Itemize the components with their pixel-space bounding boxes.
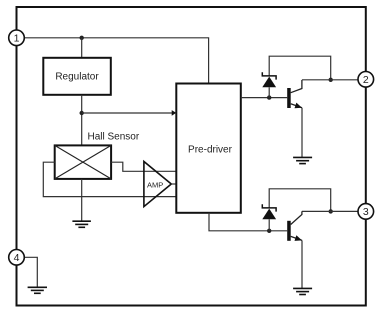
wire AMP output bbox=[171, 183, 176, 185]
wire collector1 rail to pin 2 bbox=[302, 79, 366, 81]
wire hall sensor to ground bbox=[81, 179, 83, 221]
ground Q2 emitter bbox=[293, 288, 312, 294]
zener diode D1 bbox=[262, 72, 276, 97]
op-amp AMP bbox=[144, 162, 171, 207]
wire bias to pre-driver with arrow bbox=[82, 110, 177, 116]
ground hall sensor bbox=[72, 221, 91, 227]
svg-text:2: 2 bbox=[363, 74, 369, 86]
zener diode D2 bbox=[262, 204, 276, 231]
wire zener1 top loop bbox=[269, 56, 331, 80]
ground Q1 emitter bbox=[293, 157, 312, 163]
junction regulator-bias node bbox=[80, 111, 84, 115]
wire regulator output down to hall sensor bbox=[81, 95, 83, 146]
svg-text:AMP: AMP bbox=[147, 180, 163, 189]
label Hall Sensor bbox=[88, 132, 140, 143]
wire regulator input bbox=[81, 38, 83, 58]
regulator block bbox=[43, 58, 111, 95]
pin 1 bbox=[9, 30, 25, 46]
wire hall output plus to AMP bbox=[111, 162, 176, 171]
wire VCC rail from pin 1 to Pre-driver top bbox=[24, 38, 209, 84]
pin 4 bbox=[9, 249, 25, 265]
wire zener2 top loop bbox=[269, 189, 331, 212]
transistor Q1 bbox=[287, 80, 302, 108]
transistor Q2 bbox=[287, 211, 302, 241]
svg-text:3: 3 bbox=[363, 206, 369, 218]
pin 3 bbox=[358, 204, 374, 220]
junction VCC-regulator bbox=[80, 36, 84, 40]
junction collector2 node bbox=[329, 209, 333, 213]
svg-text:Hall Sensor: Hall Sensor bbox=[88, 132, 140, 143]
wire hall output minus to AMP bbox=[43, 162, 176, 196]
pre-driver block bbox=[176, 84, 241, 213]
wire pin 4 to ground bbox=[24, 257, 37, 287]
svg-text:1: 1 bbox=[14, 33, 20, 45]
wire emitter1 to ground bbox=[301, 108, 303, 158]
wire collector2 rail to pin 3 bbox=[302, 210, 366, 212]
junction zener1 base node bbox=[267, 95, 271, 99]
pin 2 bbox=[358, 72, 374, 88]
wire emitter2 to ground bbox=[301, 240, 303, 288]
wire pre-driver output 1 to Q1 base bbox=[241, 97, 287, 99]
junction zener2 base node bbox=[267, 229, 271, 233]
hall sensor element bbox=[55, 145, 111, 179]
svg-text:4: 4 bbox=[14, 252, 20, 264]
svg-text:Regulator: Regulator bbox=[55, 72, 99, 83]
svg-text:Pre-driver: Pre-driver bbox=[188, 145, 233, 156]
wire pre-driver output 2 to Q2 base bbox=[209, 213, 287, 231]
junction collector1 node bbox=[329, 78, 333, 82]
ground pin 4 bbox=[28, 287, 47, 293]
